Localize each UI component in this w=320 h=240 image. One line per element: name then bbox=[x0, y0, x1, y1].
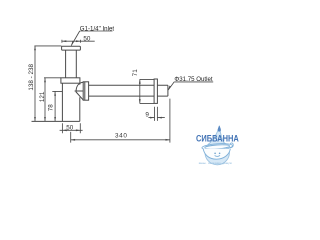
svg-text:71: 71 bbox=[132, 69, 139, 77]
body bbox=[32, 83, 80, 121]
watermark eyes bbox=[214, 153, 216, 155]
dome bbox=[75, 82, 84, 100]
outlet pipe bbox=[89, 85, 155, 96]
watermark drop bbox=[196, 125, 239, 165]
arrows dim 340 bbox=[71, 139, 75, 141]
pipe stub bbox=[157, 85, 168, 96]
dim 50 top line bbox=[62, 40, 95, 43]
svg-text:78: 78 bbox=[47, 104, 54, 112]
leader outlet bbox=[168, 82, 213, 90]
arrow leader outlet bbox=[168, 86, 171, 91]
svg-text:G1-1/4" Inlet: G1-1/4" Inlet bbox=[80, 25, 115, 32]
svg-text:121: 121 bbox=[39, 91, 46, 102]
svg-text:340: 340 bbox=[115, 132, 128, 139]
svg-text:50: 50 bbox=[83, 35, 91, 42]
dim line 121 bbox=[44, 78, 46, 122]
inlet pipe bbox=[66, 50, 77, 78]
svg-text:Φ31.75 Outlet: Φ31.75 Outlet bbox=[174, 76, 212, 83]
dim 9 bbox=[148, 107, 164, 121]
arrows dim 71 bbox=[139, 79, 141, 83]
svg-text:9: 9 bbox=[145, 111, 149, 118]
svg-text:СИБВАННА: СИБВАННА bbox=[196, 134, 239, 144]
dim line 138-238 bbox=[34, 46, 36, 122]
arrows dim 50 bottom bbox=[62, 129, 66, 131]
dim 71 bbox=[140, 79, 154, 103]
arrow leader inlet bbox=[71, 41, 74, 46]
nut bbox=[83, 82, 88, 100]
arrows left dims bbox=[34, 46, 36, 50]
dim 340 bbox=[71, 99, 170, 143]
leader inlet bbox=[71, 31, 112, 46]
dim line 78 bbox=[54, 91, 56, 121]
left ext lines bbox=[34, 46, 62, 92]
watermark apex dark bbox=[218, 125, 221, 131]
arrows dim 50 top bbox=[62, 40, 66, 42]
watermark tub bbox=[202, 143, 234, 159]
inlet flange bbox=[62, 46, 81, 50]
svg-text:50: 50 bbox=[66, 124, 74, 131]
wall flange bbox=[154, 79, 157, 103]
svg-text:ванны · сантехника · джакузи: ванны · сантехника · джакузи bbox=[199, 162, 232, 165]
svg-text:138 - 238: 138 - 238 bbox=[28, 63, 35, 90]
arrows dim 9 bbox=[150, 117, 154, 119]
collar bbox=[61, 78, 80, 83]
dim 50 bottom bbox=[60, 123, 83, 133]
